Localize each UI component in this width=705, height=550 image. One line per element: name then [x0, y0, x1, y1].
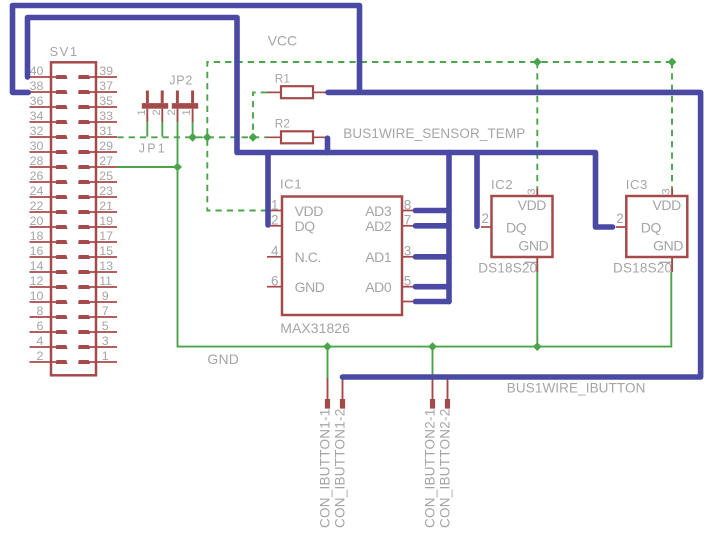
pin SV1-19 pad	[78, 225, 90, 229]
junction GND / IC2 GND	[533, 342, 542, 351]
svg-text:11: 11	[99, 274, 112, 288]
svg-text:BUS1WIRE_IBUTTON: BUS1WIRE_IBUTTON	[507, 381, 646, 396]
svg-text:3: 3	[526, 188, 538, 194]
svg-text:1: 1	[271, 197, 279, 212]
bus comb stub y=210.5	[416, 208, 450, 214]
svg-text:3: 3	[404, 244, 412, 259]
pin CON_IBUTTON2-1 pad	[430, 399, 435, 409]
pin SV1-10 wire	[30, 301, 57, 303]
pin SV1-23 pad	[78, 195, 90, 199]
pin SV1-37 pad	[78, 90, 90, 94]
bus stub R2 to BUS1WIRE_SENSOR_TEMP	[325, 138, 331, 152]
svg-text:28: 28	[30, 154, 44, 168]
pin SV1-25 pad	[78, 180, 90, 184]
svg-text:22: 22	[30, 199, 44, 213]
svg-text:GND: GND	[653, 238, 683, 254]
pin IC1 right stub y=301.5	[402, 301, 416, 303]
pin SV1-18 wire	[30, 241, 57, 243]
svg-text:17: 17	[99, 229, 113, 243]
svg-text:GND: GND	[207, 351, 239, 367]
svg-text:10: 10	[30, 289, 44, 303]
pin SV1-34 pad	[56, 120, 68, 124]
svg-text:2: 2	[151, 109, 163, 115]
jumper JP1 prong 1	[146, 91, 149, 104]
svg-text:CON_IBUTTON2-2: CON_IBUTTON2-2	[438, 408, 453, 528]
resistor R2 body	[281, 131, 313, 143]
svg-text:2: 2	[36, 349, 43, 363]
bus comb vertical for IC1 AD pins	[446, 153, 452, 302]
pin SV1-26 pad	[56, 180, 68, 184]
svg-text:36: 36	[30, 94, 44, 108]
svg-text:MAX31826: MAX31826	[280, 320, 350, 336]
pin CON_IBUTTON2-2 stub	[447, 378, 449, 399]
pin IC1.1 left stub	[267, 210, 282, 212]
svg-text:AD1: AD1	[365, 249, 392, 265]
junction pin27 / GND	[173, 163, 182, 172]
svg-text:5: 5	[102, 319, 109, 333]
svg-text:3: 3	[102, 334, 109, 348]
pin SV1-7 wire	[79, 316, 118, 318]
svg-text:13: 13	[99, 259, 113, 273]
wire net VCC dashed drop to IC3 VDD	[671, 62, 673, 189]
pin SV1-5 wire	[79, 331, 118, 333]
junction JP pin4 / VCC	[188, 133, 197, 142]
IC U1 MAX31826 body	[282, 197, 402, 316]
bus drop to IC1 DQ	[265, 153, 271, 226]
pin SV1-15 pad	[78, 255, 90, 259]
pin SV1-24 pad	[56, 195, 68, 199]
jumper pin stub x=177.5	[177, 109, 179, 122]
pin SV1-12 wire	[30, 286, 57, 288]
pin SV1-33 wire	[79, 121, 118, 123]
pin CON_IBUTTON2-2 pad	[445, 399, 450, 409]
wire net VCC dashed main: IC1 VDD, up, along top	[207, 62, 672, 211]
pin IC1.6 left stub	[267, 286, 282, 288]
pin SV1-29 pad	[78, 150, 90, 154]
resistor R2 wires	[267, 136, 326, 138]
pin SV1-13 wire	[79, 271, 118, 273]
bus drop to IC2 DQ	[474, 153, 480, 227]
pin SV1-20 wire	[30, 226, 57, 228]
pin IC1 right stub y=225.8	[402, 225, 416, 227]
svg-text:7: 7	[102, 304, 109, 318]
jumper JP1 bar	[142, 103, 168, 109]
svg-text:AD2: AD2	[365, 218, 392, 234]
svg-text:32: 32	[30, 124, 44, 138]
svg-text:DQ: DQ	[641, 220, 662, 236]
pin SV1-9 pad	[78, 300, 90, 304]
bus inner loop: SV1 pin40 over and down to BUS1WIRE_SENSOR_TEMP, to IC3 DQ	[28, 18, 613, 228]
svg-text:1: 1	[136, 109, 148, 115]
wire jumper JP pin stub 4	[192, 122, 194, 137]
svg-text:18: 18	[30, 229, 44, 243]
svg-text:35: 35	[99, 94, 113, 108]
svg-text:2: 2	[166, 109, 178, 115]
pin SV1-22 wire	[30, 211, 57, 213]
IC IC2 DS18S20 body	[492, 196, 553, 257]
pin SV1-39 pad	[78, 75, 90, 79]
svg-text:VCC: VCC	[268, 33, 298, 49]
wire jumper JP pin stub 1	[146, 122, 148, 137]
svg-text:31: 31	[99, 124, 113, 138]
pin SV1-19 wire	[79, 226, 118, 228]
pin SV1-23 wire	[79, 196, 118, 198]
pin SV1-24 wire	[30, 196, 57, 198]
svg-text:IC3: IC3	[626, 177, 648, 192]
svg-text:2: 2	[616, 211, 624, 226]
pin IC3.2 DQ stub	[616, 226, 627, 228]
resistor R1 wires	[267, 91, 326, 93]
svg-text:7: 7	[404, 213, 412, 228]
pin SV1-18 pad	[56, 240, 68, 244]
jumper JP2 bar	[172, 103, 198, 109]
junction GND / CON_IBUTTON2-1	[428, 342, 437, 351]
svg-text:27: 27	[99, 154, 113, 168]
svg-text:24: 24	[30, 184, 44, 198]
pin SV1-11 wire	[79, 286, 118, 288]
bus outer loop: SV1 pin38 up over to R1 net	[13, 6, 360, 93]
pin SV1-16 wire	[30, 256, 57, 258]
svg-text:AD3: AD3	[365, 203, 392, 219]
pin SV1-31 pad	[78, 135, 90, 139]
pin SV1-13 pad	[78, 270, 90, 274]
svg-text:29: 29	[99, 139, 113, 153]
svg-text:40: 40	[30, 64, 44, 78]
svg-text:CON_IBUTTON2-1: CON_IBUTTON2-1	[423, 408, 438, 528]
pin SV1-20 pad	[56, 225, 68, 229]
connector SV1 body	[51, 62, 96, 375]
pin IC1 right stub y=286.7	[402, 286, 416, 288]
IC IC3 DS18S20 body	[626, 196, 687, 257]
svg-text:CON_IBUTTON1-2: CON_IBUTTON1-2	[333, 408, 348, 528]
jumper pin stub x=192.6	[192, 109, 194, 122]
svg-text:4: 4	[36, 334, 43, 348]
svg-text:3: 3	[661, 188, 673, 194]
pin SV1-15 wire	[79, 256, 118, 258]
svg-text:IC2: IC2	[491, 177, 513, 192]
svg-text:BUS1WIRE_SENSOR_TEMP: BUS1WIRE_SENSOR_TEMP	[343, 126, 525, 141]
pin SV1-35 pad	[78, 105, 90, 109]
junction VCC / IC2 VDD	[533, 58, 542, 67]
junction VCC to R1 branch	[249, 133, 258, 142]
svg-text:GND: GND	[518, 238, 548, 254]
svg-text:N.C.: N.C.	[295, 249, 321, 265]
svg-text:VDD: VDD	[652, 197, 681, 213]
pin CON_IBUTTON1-2 pad	[340, 399, 345, 409]
svg-text:30: 30	[30, 139, 44, 153]
pin SV1-34 wire	[30, 121, 57, 123]
pin SV1-11 pad	[78, 285, 90, 289]
pin SV1-9 wire	[79, 301, 118, 303]
jumper JP2 prong 1	[176, 91, 179, 104]
pin SV1-30 pad	[56, 150, 68, 154]
svg-text:25: 25	[99, 169, 113, 183]
pin SV1-36 pad	[56, 105, 68, 109]
svg-text:8: 8	[36, 304, 43, 318]
pin SV1-36 wire	[30, 106, 57, 108]
pin SV1-37 wire	[79, 91, 118, 93]
resistor R1 body	[281, 86, 313, 98]
junction VCC vertical	[203, 133, 212, 142]
pin SV1-3 wire	[79, 346, 118, 348]
svg-text:GND: GND	[295, 279, 325, 295]
bus comb stub y=301.5	[416, 299, 450, 305]
svg-text:R1: R1	[275, 72, 290, 86]
wire CON_IBUTTON2-1 to GND	[432, 347, 434, 378]
pin SV1-39 wire	[79, 76, 118, 78]
svg-text:38: 38	[30, 79, 44, 93]
pin SV1-8 pad	[56, 315, 68, 319]
pin SV1-6 pad	[56, 330, 68, 334]
pin SV1-10 pad	[56, 300, 68, 304]
svg-text:39: 39	[99, 64, 113, 78]
wire IC2 GND to net GND	[536, 272, 538, 347]
pin SV1-29 wire	[79, 151, 118, 153]
pin SV1-16 pad	[56, 255, 68, 259]
pin SV1-12 pad	[56, 285, 68, 289]
svg-text:20: 20	[30, 214, 44, 228]
jumper pin stub x=162.3	[161, 109, 163, 122]
svg-text:CON_IBUTTON1-1: CON_IBUTTON1-1	[318, 408, 333, 528]
pin SV1-38 wire	[30, 91, 57, 93]
pin SV1-25 wire	[79, 181, 118, 183]
pin IC1.2 left stub	[267, 225, 282, 227]
svg-text:26: 26	[30, 169, 44, 183]
pin SV1-2 pad	[56, 360, 68, 364]
pin IC2.3 VDD stub	[536, 189, 538, 197]
jumper JP2 prong 2	[191, 91, 194, 104]
bus from R1 right along top, down right edge, BUS1WIRE_IBUTTON	[328, 92, 701, 377]
svg-text:19: 19	[99, 214, 113, 228]
pin SV1-38 pad	[56, 90, 68, 94]
pin SV1-27 pad	[78, 165, 90, 169]
pin IC2.1 GND stub	[536, 257, 538, 272]
svg-text:14: 14	[30, 259, 44, 273]
svg-text:1: 1	[102, 349, 109, 363]
pin CON_IBUTTON1-1 stub	[327, 378, 329, 399]
pin SV1-1 wire	[79, 361, 118, 363]
svg-text:15: 15	[99, 244, 113, 258]
pin IC1 right stub y=210.5	[402, 210, 416, 212]
pin SV1-26 wire	[30, 181, 57, 183]
pin CON_IBUTTON2-1 stub	[432, 378, 434, 399]
svg-text:VDD: VDD	[518, 197, 547, 213]
svg-text:R2: R2	[275, 117, 290, 131]
pin SV1-4 wire	[30, 346, 57, 348]
junction GND / CON_IBUTTON1-1	[323, 342, 332, 351]
svg-text:JP1: JP1	[139, 142, 167, 156]
pin SV1-40 pad	[56, 75, 68, 79]
pin SV1-33 pad	[78, 120, 90, 124]
wire net VCC dashed to R1	[253, 92, 267, 137]
pin SV1-32 pad	[56, 135, 68, 139]
svg-text:VDD: VDD	[295, 203, 324, 219]
overline mark on DS18S20	[525, 261, 537, 263]
svg-text:4: 4	[271, 244, 279, 259]
svg-text:DQ: DQ	[506, 220, 527, 236]
svg-text:6: 6	[36, 319, 43, 333]
svg-text:6: 6	[271, 274, 279, 289]
pin SV1-4 pad	[56, 345, 68, 349]
pin SV1-28 pad	[56, 165, 68, 169]
svg-text:5: 5	[404, 274, 412, 289]
pin SV1-6 wire	[30, 331, 57, 333]
svg-text:2: 2	[481, 211, 489, 226]
svg-text:21: 21	[99, 199, 113, 213]
svg-text:23: 23	[99, 184, 113, 198]
pin SV1-3 pad	[78, 345, 90, 349]
wire jumper JP pin stub 2	[161, 122, 163, 137]
pin IC3.1 GND stub	[671, 257, 673, 272]
pin SV1-28 wire	[30, 166, 57, 168]
pin SV1-32 wire	[30, 136, 57, 138]
pin SV1-35 wire	[79, 106, 118, 108]
svg-text:12: 12	[30, 274, 44, 288]
svg-text:SV1: SV1	[50, 44, 79, 59]
pin SV1-5 pad	[78, 330, 90, 334]
pin CON_IBUTTON1-2 stub	[342, 378, 344, 399]
pin SV1-2 wire	[30, 361, 57, 363]
svg-text:37: 37	[99, 79, 113, 93]
svg-text:1: 1	[181, 109, 193, 115]
pin SV1-22 pad	[56, 210, 68, 214]
pin IC1 right stub y=256.8	[402, 256, 416, 258]
pin SV1-17 pad	[78, 240, 90, 244]
svg-text:8: 8	[404, 197, 412, 212]
overline mark on DS18S20	[659, 261, 671, 263]
svg-text:16: 16	[30, 244, 44, 258]
pin IC2.2 DQ stub	[481, 226, 492, 228]
pin SV1-1 pad	[78, 360, 90, 364]
pin IC1.4 left stub	[267, 256, 282, 258]
pin SV1-31 wire	[79, 136, 118, 138]
wire net VCC dashed row y=137 to R2	[117, 136, 267, 138]
pin SV1-21 pad	[78, 210, 90, 214]
svg-text:DQ: DQ	[295, 218, 316, 234]
bus comb stub y=225.8	[416, 223, 450, 229]
pin SV1-30 wire	[30, 151, 57, 153]
pin SV1-17 wire	[79, 241, 118, 243]
svg-text:IC1: IC1	[280, 177, 302, 192]
pin SV1-21 wire	[79, 211, 118, 213]
svg-text:9: 9	[102, 289, 109, 303]
bus comb stub y=256.8	[416, 254, 450, 260]
wire net GND main run: JP pin down, along bottom, up to IC3 GND	[178, 122, 672, 347]
pin SV1-7 pad	[78, 315, 90, 319]
junction VCC / IC3 VDD	[668, 58, 677, 67]
jumper pin stub x=147.3	[146, 109, 148, 122]
jumper JP1 prong 2	[161, 91, 164, 104]
bus comb stub y=286.7	[416, 284, 450, 290]
wire net VCC dashed drop to IC2 VDD	[536, 62, 538, 189]
svg-text:AD0: AD0	[365, 279, 392, 295]
pin SV1-40 wire	[30, 76, 57, 78]
svg-text:JP2: JP2	[169, 74, 193, 88]
pin SV1-14 pad	[56, 270, 68, 274]
pin CON_IBUTTON1-1 pad	[325, 399, 330, 409]
svg-text:2: 2	[271, 213, 279, 228]
wire net GND from SV1 pin27	[117, 166, 178, 168]
pin SV1-8 wire	[30, 316, 57, 318]
pin SV1-27 wire	[79, 166, 118, 168]
pin IC3.3 VDD stub	[671, 189, 673, 197]
pin SV1-14 wire	[30, 271, 57, 273]
svg-text:33: 33	[99, 109, 113, 123]
svg-text:34: 34	[30, 109, 44, 123]
wire CON_IBUTTON1-1 to GND	[327, 347, 329, 378]
